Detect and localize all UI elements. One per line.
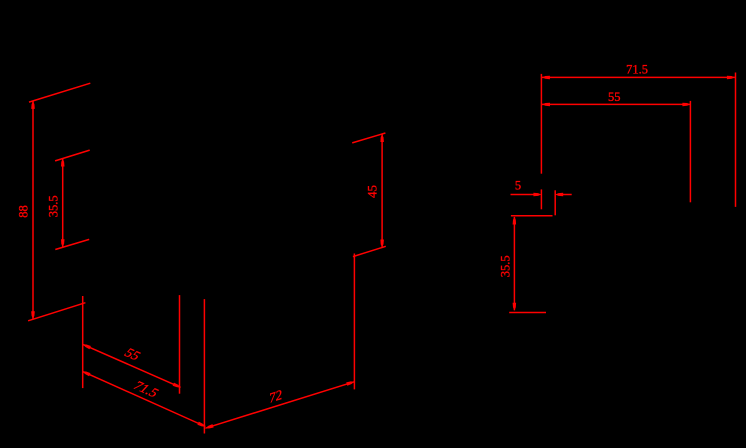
dim line 72 (bottom slanted): [205, 382, 354, 429]
extension line bottom of 88 (slanted): [28, 303, 85, 321]
dimension text 88: [17, 205, 31, 218]
dim line 55 (right horizontal): [542, 103, 690, 105]
extension line left lower segment for dim 5: [540, 189, 542, 209]
extension line horizontal bottom of 35.5: [509, 312, 546, 314]
extension line top of 88 (slanted): [29, 83, 90, 102]
extension line for dim 5 right (x=555.2): [554, 190, 556, 215]
dimension text 45: [364, 185, 379, 198]
dimension text 55: [608, 90, 621, 104]
svg-text:71.5: 71.5: [626, 62, 648, 76]
vertical extension line x=354.4: [353, 254, 355, 390]
extension line right (x=735.5): [735, 73, 737, 207]
dimension text 35.5 iso: [46, 195, 60, 217]
dim line 35.5 (iso vertical): [62, 159, 64, 248]
svg-text:5: 5: [515, 179, 521, 193]
dim 5 right leader with arrow: [563, 194, 572, 196]
dim line 35.5 (right vertical): [513, 217, 515, 310]
extension line bottom of 45 (slanted): [353, 246, 386, 256]
extension line bottom of iso 35.5 (slanted): [55, 239, 89, 249]
dimension text 5: [515, 179, 521, 193]
dimension text 72: [269, 387, 282, 406]
dim line 55 (iso slanted): [83, 344, 181, 387]
dimension text 71.5 iso: [130, 379, 162, 400]
extension line horizontal top of 35.5: [511, 215, 553, 217]
svg-text:35.5: 35.5: [499, 255, 513, 277]
dim line 88 (left vertical): [32, 101, 34, 319]
dimension text 71.5: [626, 62, 648, 76]
extension line left (x=541.4): [540, 74, 542, 174]
dim line 45 (vertical): [381, 134, 383, 248]
vertical extension line x=82.7 (front left corner): [82, 296, 84, 388]
vertical extension line x=179.5: [179, 295, 181, 394]
dim line 71.5 (iso slanted): [83, 371, 206, 426]
extension line top of iso 35.5 (slanted): [55, 150, 90, 161]
svg-text:45: 45: [364, 185, 379, 198]
dimension text 35.5: [499, 255, 513, 277]
dim line 71.5 (top right horizontal): [542, 76, 735, 78]
svg-text:55: 55: [608, 90, 621, 104]
extension line top of 45 (slanted): [352, 133, 385, 143]
dimension text 55 iso: [121, 346, 144, 363]
svg-text:35.5: 35.5: [46, 195, 60, 217]
extension line middle (x=690.4): [689, 101, 691, 202]
vertical extension line x=204.4: [203, 299, 205, 433]
dim 5 left leader with arrow: [511, 194, 534, 196]
svg-text:88: 88: [17, 205, 31, 218]
